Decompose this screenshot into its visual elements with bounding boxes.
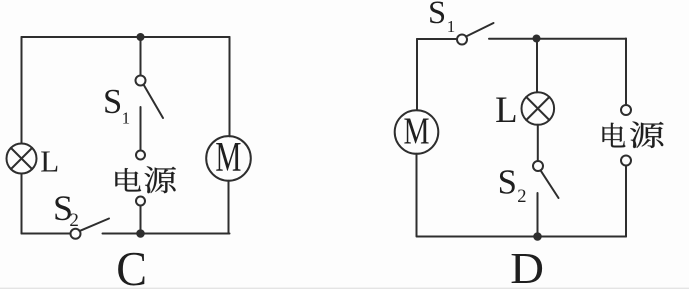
svg-text:S: S [498,163,517,202]
svg-text:1: 1 [122,109,131,128]
svg-text:C: C [116,243,147,289]
svg-text:S: S [428,0,446,31]
svg-text:D: D [510,243,544,289]
svg-text:2: 2 [517,187,526,207]
svg-text:M: M [215,134,241,180]
svg-text:M: M [403,111,429,153]
svg-text:L: L [495,89,517,130]
svg-text:2: 2 [69,210,79,231]
svg-text:1: 1 [447,17,456,36]
svg-text:S: S [103,83,122,121]
svg-text:L: L [40,144,59,179]
